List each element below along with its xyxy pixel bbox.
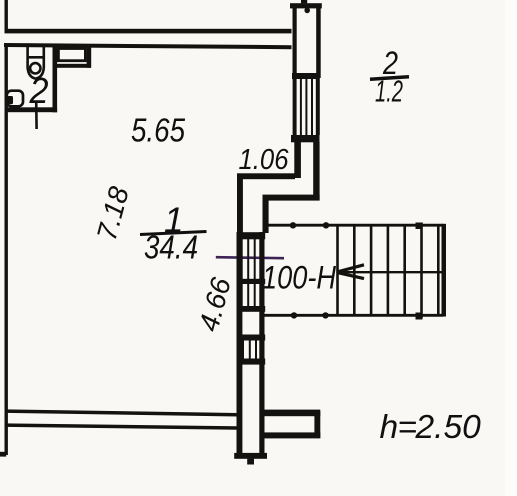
stairs right edge — [442, 224, 447, 317]
stair arrow head — [337, 265, 364, 279]
sink tap — [5, 96, 13, 104]
left exterior wall main segment — [5, 44, 8, 455]
lower wall mid cap — [237, 279, 266, 284]
left exterior wall upper segment — [5, 0, 8, 33]
lower wall cap 2 — [237, 306, 266, 312]
lower wall cap 1 — [237, 232, 266, 239]
leader line from label 1 — [216, 257, 284, 258]
vent niche wall vertical — [87, 45, 92, 68]
bottom protrusion right bar — [314, 412, 320, 438]
svg-text:100-Н: 100-Н — [262, 260, 337, 296]
lower wall bottom cap — [234, 453, 267, 459]
room bottom wall upper line — [5, 409, 237, 416]
column mid cap — [292, 73, 320, 79]
svg-text:=: = — [398, 409, 418, 446]
svg-text:34.4: 34.4 — [144, 229, 198, 266]
top column right edge — [316, 8, 321, 78]
sink — [7, 91, 23, 107]
bottom-left wall stub — [0, 452, 6, 457]
lower wall cap 3 — [237, 335, 266, 341]
toilet tank and bowl — [27, 47, 46, 79]
top column left edge — [293, 8, 297, 78]
stairs top line — [266, 224, 443, 227]
lower wall right edge — [259, 232, 264, 454]
bottom protrusion bottom bar — [260, 432, 320, 438]
wall right edge below cap — [313, 142, 319, 201]
svg-text:h: h — [380, 409, 399, 446]
lower wall bottom stub — [247, 459, 254, 465]
stair direction arrow line — [337, 271, 443, 273]
stairs bottom line — [264, 314, 444, 317]
top wall lower line — [4, 43, 292, 49]
top column top cap — [290, 3, 322, 8]
stair treads — [338, 223, 439, 319]
label 1 underline — [140, 232, 207, 235]
svg-text:2.50: 2.50 — [415, 409, 482, 446]
tread end blobs — [416, 223, 423, 230]
toilet room right wall — [53, 45, 58, 112]
lower hatched wall segment — [243, 341, 256, 359]
landing wall vertical B — [263, 200, 269, 233]
svg-text:5.65: 5.65 — [131, 112, 186, 149]
lower wall cap 4 — [237, 359, 266, 365]
svg-text:1.06: 1.06 — [239, 144, 290, 176]
upper hatched wall segment — [301, 78, 312, 135]
landing wall lower horizontal — [263, 195, 320, 201]
mid hatched wall segment — [242, 239, 255, 307]
label 2 underline — [370, 77, 409, 79]
room bottom wall lower line — [5, 423, 237, 429]
lower wall left edge — [237, 232, 243, 454]
top wall upper line — [5, 29, 292, 34]
room 2 leader line — [35, 101, 38, 129]
top column ink blob — [304, 8, 310, 14]
stair line dots — [290, 222, 296, 228]
landing wall upper horizontal — [237, 173, 295, 179]
svg-text:2: 2 — [29, 70, 49, 111]
svg-text:1.2: 1.2 — [375, 74, 403, 109]
vent niche wall horizontal — [53, 64, 92, 68]
vent duct box — [58, 49, 85, 61]
landing wall vertical A — [237, 179, 243, 236]
top column stub above cap — [301, 0, 307, 3]
toilet room bottom wall — [5, 107, 58, 112]
upper hatch bottom cap — [291, 135, 320, 142]
bottom protrusion top bar — [260, 410, 320, 417]
wall left edge below cap — [294, 142, 301, 178]
